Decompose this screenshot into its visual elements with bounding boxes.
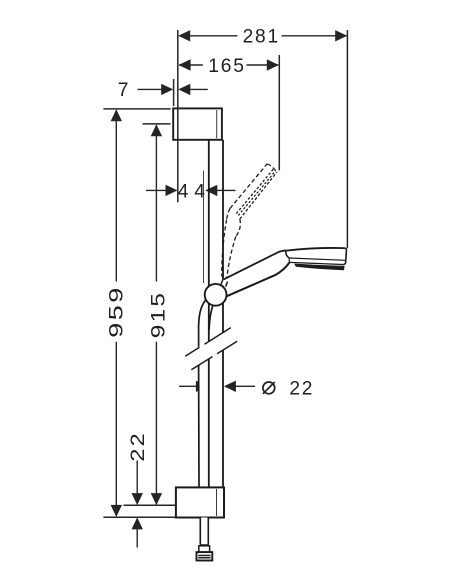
svg-text:7: 7 xyxy=(118,80,130,101)
svg-text:4: 4 xyxy=(178,181,190,202)
svg-text:22: 22 xyxy=(128,431,149,462)
svg-text:959: 959 xyxy=(107,285,128,338)
svg-text:4: 4 xyxy=(194,181,206,202)
svg-text:22: 22 xyxy=(289,379,314,400)
svg-text:915: 915 xyxy=(149,291,170,339)
svg-text:165: 165 xyxy=(208,56,245,77)
svg-text:281: 281 xyxy=(243,27,280,48)
